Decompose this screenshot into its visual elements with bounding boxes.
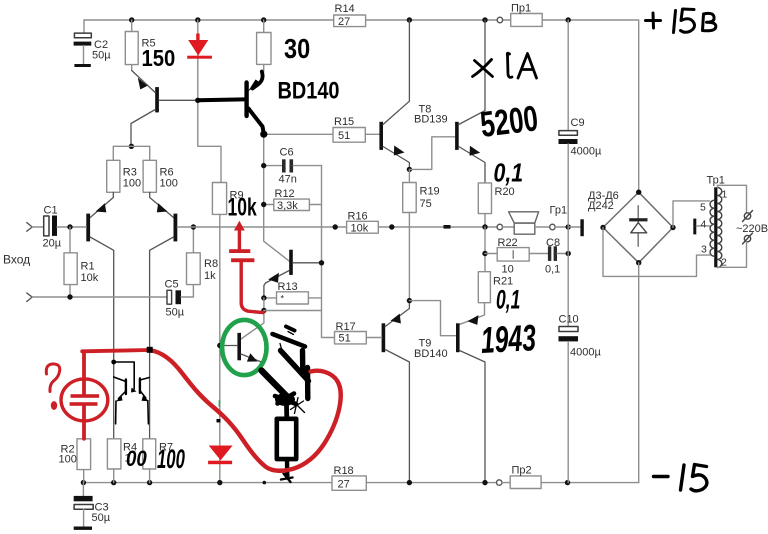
- svg-text:50µ: 50µ: [92, 50, 111, 62]
- svg-text:BD140: BD140: [414, 348, 448, 360]
- wire R9 down column: [219, 214, 221, 482]
- node VT1 base junction: [195, 98, 200, 103]
- resistor R13: [264, 297, 277, 299]
- capacitor C5: [167, 290, 172, 304]
- resistor R12: [264, 204, 274, 206]
- resistor R22: [485, 253, 497, 255]
- resistor R19: [408, 169, 410, 182]
- wire bottom rail mid: [366, 482, 496, 484]
- transistor VT1 (current source PNP): [155, 87, 159, 112]
- wire bridge bottom to rail: [638, 263, 640, 483]
- hand mirror right emitter: [140, 391, 146, 399]
- wire C5 to R8: [181, 285, 193, 297]
- resistor R21: [478, 272, 490, 303]
- svg-text:Д242: Д242: [588, 200, 614, 212]
- svg-text:R12: R12: [275, 188, 295, 200]
- svg-text:51: 51: [339, 333, 351, 345]
- node rail R7: [147, 480, 152, 485]
- terminal circle before fuse Pr2: [497, 480, 502, 485]
- wire T9 emitter node to 1943 base: [409, 301, 456, 336]
- hand current mirror left wire tap: [111, 360, 116, 365]
- hand mirror left collector: [114, 377, 126, 382]
- svg-text:Пр1: Пр1: [511, 3, 531, 15]
- transistor T9 BD140: [382, 323, 386, 352]
- hand marker resistor: [277, 419, 296, 459]
- svg-text:C5: C5: [165, 279, 179, 291]
- wire bottom -15V rail left: [83, 482, 332, 484]
- svg-text:R16: R16: [348, 211, 368, 223]
- svg-text:0,1: 0,1: [545, 264, 560, 276]
- resistor R2: [77, 439, 91, 470]
- node rail R9wire: [217, 480, 222, 485]
- resistor R4: [107, 439, 121, 469]
- resistor R18: [332, 476, 366, 490]
- terminal plug bottom: [744, 235, 750, 241]
- capacitor C9: [559, 131, 578, 136]
- terminal circle before fuse Pr1: [497, 17, 502, 22]
- svg-text:10k: 10k: [351, 223, 369, 235]
- node rail-30resistor: [261, 17, 266, 22]
- wire common vertical: [567, 20, 569, 131]
- transistor VT7 output 1943: [456, 323, 460, 352]
- node C6 left: [261, 163, 266, 168]
- red cap plates: [229, 249, 250, 253]
- wire output down: [484, 227, 486, 272]
- node rail 1943: [482, 480, 487, 485]
- red cap annotation arrow (mid): [234, 221, 245, 231]
- hand mirror transistor right bar: [139, 379, 141, 393]
- capacitor C1: [44, 216, 49, 236]
- wire common mid: [567, 144, 569, 327]
- wire mid line right: [378, 226, 497, 228]
- svg-text:C1: C1: [44, 205, 58, 217]
- red circle: [61, 379, 108, 421]
- svg-text:5200: 5200: [478, 98, 540, 145]
- svg-text:C6: C6: [280, 147, 294, 159]
- red circled capacitor lead top corner: [82, 350, 149, 394]
- speaker Gr1: [497, 224, 502, 229]
- diode VD-red (hand drawn): [187, 34, 212, 59]
- svg-text:4000µ: 4000µ: [570, 347, 601, 359]
- svg-text:3: 3: [701, 244, 707, 256]
- capacitor C2: [83, 20, 85, 33]
- terminal plug top: [744, 213, 750, 219]
- svg-text:10k: 10k: [81, 272, 99, 284]
- svg-text:C10: C10: [559, 314, 579, 326]
- red lead down to R2: [82, 406, 86, 439]
- ellipse green annotation: [222, 320, 266, 375]
- wire mid feedback line left: [177, 226, 346, 228]
- wire common lower: [567, 341, 569, 482]
- svg-text:R13: R13: [278, 281, 298, 293]
- resistor R14: [334, 15, 366, 27]
- svg-text:51: 51: [338, 130, 350, 142]
- wire bridge left to transformer pin3: [603, 228, 710, 277]
- hand text 1A: [507, 53, 512, 77]
- diode VD-red bottom (hand drawn): [209, 446, 233, 461]
- hand transistor emitter with arrow: [253, 72, 263, 89]
- node rail common: [565, 480, 570, 485]
- node rail R2/C3: [81, 480, 86, 485]
- transistor T8 BD139: [379, 122, 383, 150]
- input arrow 1: [27, 223, 32, 232]
- node R22 tap: [482, 251, 487, 256]
- resistor R9: [212, 183, 226, 215]
- wire emitter node down: [263, 298, 265, 311]
- resistor R20: [478, 183, 491, 214]
- resistor R16: [347, 221, 379, 233]
- wire diode column: [198, 20, 221, 183]
- hand thin scratches: [280, 332, 305, 414]
- hand mirror base arrow: [131, 388, 137, 393]
- red question mark: [46, 364, 59, 392]
- wire bottom rail right: [541, 482, 639, 484]
- hand marker scribble transistor sketch: [286, 327, 295, 331]
- node base VT3: [191, 224, 196, 229]
- svg-text:BD139: BD139: [414, 114, 448, 126]
- wire node to right column: [264, 310, 322, 312]
- svg-text:100: 100: [123, 178, 141, 190]
- wire input1 to C1: [32, 226, 44, 228]
- svg-text:4: 4: [701, 219, 707, 231]
- resistor R15: [333, 128, 365, 143]
- transistor VT4 (VAS): [289, 250, 293, 275]
- svg-text:00: 00: [126, 448, 147, 472]
- node T9 emitter: [407, 298, 412, 303]
- fuse Pr1: [511, 14, 543, 27]
- wire node down to green transistor collector: [241, 311, 264, 340]
- red big loop around marker sketch: [150, 350, 341, 471]
- resistor R3: [107, 160, 120, 192]
- node hand square junction: [147, 347, 153, 353]
- node R12 left: [261, 202, 266, 207]
- svg-text:BD140: BD140: [278, 77, 340, 104]
- node rail R4: [111, 480, 116, 485]
- node input2-R1: [67, 294, 72, 299]
- node input-R1: [67, 224, 72, 229]
- svg-text:R19: R19: [420, 186, 440, 198]
- node lower: [261, 308, 266, 313]
- node rail-T8 collector: [407, 17, 412, 22]
- transformer left winding: [710, 200, 714, 256]
- capacitor C6: [264, 165, 282, 167]
- svg-text:1k: 1k: [204, 270, 216, 282]
- svg-text:Гр1: Гр1: [550, 205, 568, 217]
- terminal bar output: [568, 226, 580, 228]
- capacitor C8: [548, 246, 551, 261]
- capacitor C3: [82, 483, 84, 496]
- node rail small: [263, 481, 267, 485]
- svg-text:*: *: [281, 294, 285, 304]
- svg-text:75: 75: [420, 198, 432, 210]
- node rail-diode-wire: [195, 17, 200, 22]
- hand text -15: [654, 465, 707, 491]
- transistor VT6 output 5200: [455, 122, 459, 150]
- red cap plates in circle: [71, 394, 100, 398]
- svg-text:R15: R15: [334, 116, 354, 128]
- wire C1 to base VT2: [57, 226, 86, 228]
- svg-text:150: 150: [142, 45, 176, 72]
- resistor R6: [143, 160, 156, 192]
- node T8 emitter: [407, 167, 412, 172]
- svg-text:3,3k: 3,3k: [277, 200, 298, 212]
- svg-text:R8: R8: [204, 258, 218, 270]
- wire R3/R6 common top: [113, 146, 149, 160]
- svg-text:20µ: 20µ: [43, 238, 62, 250]
- svg-text:100: 100: [157, 444, 185, 474]
- hand text +15V: [646, 9, 716, 33]
- hand mirror transistor left bar: [125, 380, 127, 395]
- red cap lower lead: [241, 262, 263, 313]
- wire primary top lead: [717, 185, 746, 213]
- wire top rail after fuse to bridge corner: [542, 20, 639, 192]
- wire top +15V rail right segment: [366, 19, 498, 21]
- svg-text:10: 10: [502, 264, 514, 276]
- bridge rectifier D3-D6: [603, 192, 673, 263]
- hand mark small dash on wire: [444, 225, 451, 229]
- resistor R17: [335, 332, 367, 344]
- svg-text:R1: R1: [81, 261, 95, 273]
- wire top +15V rail left segment: [84, 19, 334, 21]
- node R9wire-VT5 base: [217, 343, 222, 348]
- svg-text:C9: C9: [571, 117, 585, 129]
- svg-text:C8: C8: [546, 237, 560, 249]
- svg-text:100: 100: [160, 178, 178, 190]
- hand transistor bar: [244, 83, 248, 117]
- svg-text:Пр2: Пр2: [512, 465, 532, 477]
- svg-text:10k: 10k: [228, 192, 258, 221]
- svg-text:0,1: 0,1: [496, 284, 520, 315]
- node R13 left: [261, 295, 266, 300]
- node rail T9: [407, 480, 412, 485]
- node output: [482, 224, 487, 229]
- svg-text:0,1: 0,1: [494, 159, 524, 189]
- transformer right winding: [717, 188, 721, 268]
- resistor R5: [131, 20, 133, 32]
- wire BD140-collector node to C6/R12 column: [264, 134, 290, 261]
- wire primary bottom lead: [717, 242, 746, 267]
- svg-text:27: 27: [338, 16, 350, 28]
- hand mirror right collector: [140, 378, 149, 381]
- svg-text:50µ: 50µ: [166, 307, 185, 319]
- wire bridge right to transformer pin5: [673, 201, 710, 228]
- wire speaker to common: [555, 226, 568, 228]
- capacitor C10: [559, 327, 578, 332]
- svg-text:4000µ: 4000µ: [571, 146, 602, 158]
- node mid-right: [389, 224, 394, 229]
- input arrow 2: [27, 293, 32, 302]
- svg-text:R18: R18: [334, 465, 354, 477]
- node rail-5200 collector: [482, 17, 487, 22]
- svg-text:R14: R14: [335, 3, 355, 15]
- handwritten annotations: [126, 9, 716, 491]
- wire R15 left lead: [264, 133, 333, 135]
- svg-text:27: 27: [338, 479, 350, 491]
- hand green speck on wire: [218, 401, 220, 407]
- wire rail segment circle to fuse: [503, 19, 511, 21]
- transistor VT3 right input pair: [174, 214, 178, 242]
- hand transistor BD140 sketch base line: [198, 97, 244, 102]
- resistor R1: [69, 227, 71, 253]
- resistor R7: [143, 439, 156, 469]
- transistor VT5 (in green circle): [237, 333, 241, 360]
- resistor 30 (top, value handwritten): [263, 20, 265, 33]
- svg-text:50µ: 50µ: [92, 512, 111, 524]
- terminal bar pin4: [693, 219, 696, 235]
- node common-speaker: [566, 224, 571, 229]
- node common-C8: [566, 251, 571, 256]
- resistor R8: [187, 253, 201, 285]
- node rail-common: [566, 17, 571, 22]
- svg-text:1: 1: [722, 189, 728, 201]
- fuse Pr2: [502, 482, 510, 484]
- svg-text:~220В: ~220В: [736, 223, 768, 235]
- transformer Tr1 core: [714, 187, 717, 267]
- svg-text:R17: R17: [336, 321, 356, 333]
- svg-text:R22: R22: [498, 237, 518, 249]
- svg-text:47n: 47n: [279, 174, 297, 186]
- node VAS collector: [319, 260, 324, 265]
- node R3-R6 top: [129, 144, 134, 149]
- wire input2 line: [32, 296, 167, 298]
- wire right column C6-R12-R17: [322, 166, 335, 338]
- svg-text:1943: 1943: [480, 316, 538, 361]
- svg-text:100: 100: [59, 454, 77, 466]
- hand dot marks: [217, 419, 221, 422]
- node rail-R5: [129, 17, 134, 22]
- svg-text:5: 5: [700, 202, 706, 214]
- hand transistor collector: [249, 109, 264, 134]
- svg-text:30: 30: [284, 34, 310, 64]
- svg-text:Вход: Вход: [3, 253, 30, 267]
- hand text x (cross on wire): [473, 60, 493, 77]
- hand mirror left emitter: [119, 391, 126, 399]
- wire T8 emitter to 5200 base: [409, 137, 455, 170]
- node mid-R16: [333, 224, 338, 229]
- transistor VT2 left input pair: [86, 214, 90, 242]
